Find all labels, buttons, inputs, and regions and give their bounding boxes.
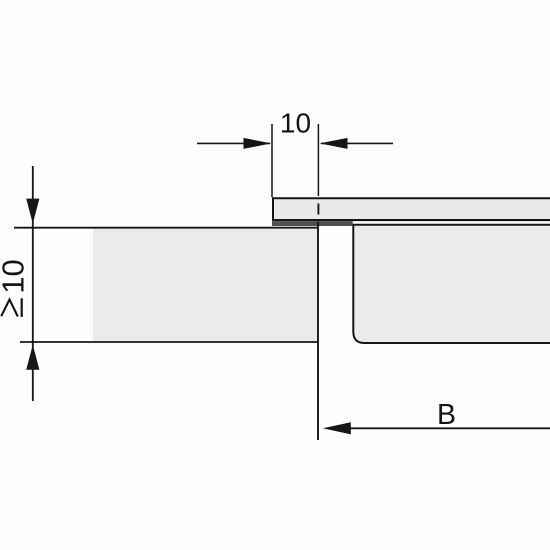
svg-text:10: 10 bbox=[280, 107, 311, 138]
svg-text:10: 10 bbox=[0, 259, 30, 293]
svg-text:B: B bbox=[437, 399, 456, 431]
